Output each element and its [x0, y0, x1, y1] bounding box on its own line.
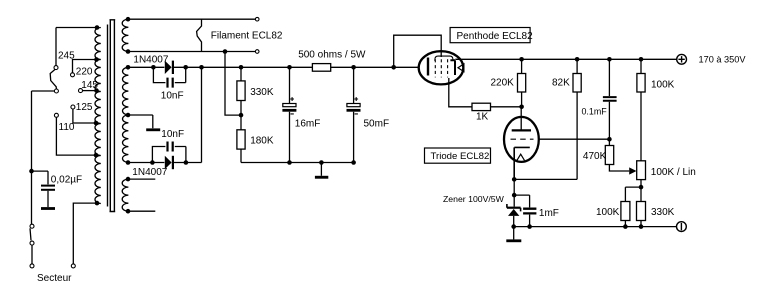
pentode cathode bar	[427, 58, 429, 76]
node 0.1mF top	[607, 57, 612, 62]
triode cathode hook	[514, 147, 530, 179]
svg-text:220K: 220K	[491, 78, 515, 89]
diode D2	[165, 156, 173, 169]
svg-text:500 ohms / 5W: 500 ohms / 5W	[298, 49, 366, 60]
node rectifier junction	[199, 65, 204, 70]
chassis bar center tap	[146, 128, 160, 131]
node spare winding bottom	[126, 209, 131, 214]
wire triode anode	[520, 107, 522, 130]
node HT winding bottom	[126, 160, 131, 165]
selector squiggle	[50, 69, 56, 89]
svg-text:100K / Lin: 100K / Lin	[651, 167, 696, 178]
resistor 220K	[518, 59, 526, 107]
resistor 82K	[573, 59, 581, 179]
node 220K top	[519, 57, 524, 62]
wire to capacitor 0,02uF	[32, 171, 49, 184]
resistor 470K	[605, 139, 629, 171]
potentiometer 100K/Lin	[637, 161, 646, 187]
node 50mF top	[351, 65, 356, 70]
tap 220 circle	[71, 73, 75, 77]
svg-text:10nF: 10nF	[161, 90, 184, 101]
node 330K bottom rail	[639, 224, 644, 229]
wire HT top to diode D1	[128, 66, 164, 68]
resistor 330K (divider)	[237, 67, 245, 115]
tap 110 circle	[54, 113, 58, 117]
terminal output plus	[677, 54, 687, 64]
wire selector to left rail	[32, 91, 55, 224]
svg-text:180K: 180K	[250, 136, 274, 147]
transformer primary winding	[95, 28, 101, 204]
pentode anode	[450, 60, 455, 75]
svg-text:50mF: 50mF	[364, 118, 390, 129]
svg-text:Penthode ECL82: Penthode ECL82	[457, 31, 534, 42]
node HT winding center tap	[126, 113, 131, 118]
node 330K top	[239, 65, 244, 70]
wire HT bottom to diode D2	[128, 162, 164, 164]
selector contact B	[54, 89, 58, 93]
svg-text:110: 110	[59, 122, 75, 133]
node D2 loop right	[184, 160, 189, 165]
svg-text:Triode ECL82: Triode ECL82	[431, 151, 490, 162]
resistor 330K (bottom)	[637, 202, 646, 227]
wire 1K to 220K node	[491, 106, 522, 108]
svg-text:220: 220	[76, 67, 93, 78]
node tap 110	[94, 153, 99, 158]
terminal filament bottom	[255, 50, 259, 54]
node zener bottom	[511, 224, 516, 229]
node 16mF bottom	[287, 160, 292, 165]
node divider mid	[239, 113, 244, 118]
node 1mF bottom	[527, 224, 532, 229]
svg-text:82K: 82K	[552, 78, 570, 89]
wire triode grid	[539, 138, 610, 140]
selector contact A	[54, 66, 58, 70]
transformer filament winding	[122, 19, 128, 51]
triode grid dashes	[511, 138, 534, 140]
chassis bar under zener	[506, 227, 521, 243]
resistor 180K	[237, 115, 245, 162]
resistor 1K	[472, 103, 491, 110]
node spare winding top	[126, 177, 131, 182]
node tap 125	[94, 121, 99, 126]
node cathode/82K	[512, 177, 517, 182]
svg-text:Filament ECL82: Filament ECL82	[211, 31, 283, 42]
wire HT rail	[174, 66, 419, 68]
node tap 145	[94, 88, 99, 93]
wire output rail	[455, 58, 676, 60]
node filament bottom	[126, 49, 131, 54]
svg-text:100K: 100K	[596, 207, 620, 218]
node D1 loop right	[183, 65, 188, 70]
transformer spare winding	[122, 179, 128, 211]
diode D1	[165, 61, 173, 74]
node 82K top	[575, 57, 580, 62]
zener diode	[507, 179, 521, 226]
svg-text:470K: 470K	[583, 151, 607, 162]
node 100K top	[639, 57, 644, 62]
chassis bar under 0,02uF	[41, 207, 55, 210]
node 16mF top	[287, 65, 292, 70]
node pot bottom	[639, 185, 644, 190]
node 100K bottom rail	[623, 224, 628, 229]
wire switch to terminal	[31, 245, 33, 264]
svg-text:0.1mF: 0.1mF	[582, 107, 608, 117]
svg-text:0,02µF: 0,02µF	[51, 175, 82, 186]
resistor 100K (top right)	[637, 59, 645, 161]
svg-text:16mF: 16mF	[295, 118, 321, 129]
capacitor 0,02uF	[41, 185, 55, 191]
node D2 loop left	[150, 160, 155, 165]
node grid/0.1mF/470K	[607, 137, 612, 142]
switch contact top	[30, 224, 34, 228]
terminal mains left	[30, 264, 34, 268]
wire spare top stub	[128, 178, 155, 180]
svg-text:1K: 1K	[476, 111, 489, 122]
svg-text:Secteur: Secteur	[37, 273, 72, 284]
resistor 100K (bottom)	[621, 202, 630, 227]
svg-text:330K: 330K	[651, 207, 675, 218]
terminal output minus	[677, 222, 687, 232]
capacitor 0.1mF	[603, 59, 617, 139]
box Penthode ECL82	[450, 28, 533, 43]
node 50mF bottom	[351, 160, 356, 165]
wire D2 output riser	[174, 67, 202, 162]
wire capacitor bottom	[47, 191, 49, 207]
tap 145 circle	[79, 89, 83, 93]
capacitor 50mF	[347, 67, 361, 162]
switch blade	[30, 228, 31, 240]
box Triode ECL82	[425, 148, 491, 163]
svg-text:330K: 330K	[250, 87, 274, 98]
wire filter ground rail	[241, 162, 354, 164]
svg-text:10nF: 10nF	[161, 129, 184, 140]
svg-text:1N4007: 1N4007	[133, 54, 168, 65]
triode heater caret	[517, 154, 525, 160]
wire filament bottom	[128, 51, 255, 53]
wire primary top (245 tap to winding top)	[56, 28, 97, 66]
switch contact bottom	[30, 241, 34, 245]
tube triode U2 envelope	[504, 117, 539, 162]
svg-text:1mF: 1mF	[539, 208, 559, 219]
node D1 loop left	[151, 65, 156, 70]
node 220K bottom	[519, 105, 524, 110]
filament squiggle	[197, 19, 202, 51]
node ground stub	[319, 160, 324, 165]
tap 125 circle	[71, 105, 75, 109]
svg-text:100K: 100K	[651, 79, 675, 90]
capacitor 1mF	[514, 195, 536, 227]
wire tap 110	[56, 117, 96, 155]
capacitor 10nF (across D1)	[153, 67, 185, 87]
transformer core	[108, 20, 116, 212]
node winding top	[95, 25, 100, 30]
wire spare bottom stub	[128, 210, 155, 212]
pentode anode chevron	[458, 64, 464, 72]
svg-text:125: 125	[76, 102, 93, 113]
node cathode/zener	[512, 193, 517, 198]
capacitor 16mF	[282, 67, 296, 162]
terminal mains right	[71, 264, 75, 268]
wire bottom rail	[514, 226, 677, 228]
wire tap 220	[73, 60, 97, 73]
node mains cap junction	[29, 169, 34, 174]
terminal filament top	[255, 17, 259, 21]
node HT winding top	[126, 65, 131, 70]
potentiometer wiper arrow	[629, 167, 636, 174]
wire filament top	[128, 18, 255, 20]
svg-text:Zener 100V/5W: Zener 100V/5W	[443, 194, 505, 204]
triode anode bar	[512, 129, 531, 131]
capacitor 10nF (across D2)	[152, 142, 186, 163]
resistor 500 ohms	[312, 64, 330, 72]
wire pot bottom branch	[625, 187, 641, 201]
transformer HT winding	[123, 67, 129, 162]
wire screen grid g2	[394, 35, 442, 67]
node g2 branch	[391, 65, 396, 70]
ground (filter)	[315, 163, 328, 179]
wire mains right to primary bottom	[73, 203, 97, 264]
wire cathode to 82K return	[514, 178, 577, 180]
wire center tap	[128, 115, 152, 128]
node heater reference	[223, 49, 228, 54]
node filament top	[126, 17, 131, 22]
svg-text:170 à 350V: 170 à 350V	[699, 55, 747, 65]
wire tap 125	[73, 109, 96, 123]
wire heater reference to divider	[225, 52, 241, 116]
pentode grid dashes	[435, 59, 447, 77]
tube pentode U1 envelope	[419, 51, 464, 84]
svg-text:1N4007: 1N4007	[132, 167, 167, 178]
node primary bottom	[95, 201, 100, 206]
wire tap 145	[83, 90, 97, 92]
node tap 220	[94, 57, 99, 62]
wire pentode g1 to 1K	[449, 78, 472, 107]
pentode grid cage	[435, 56, 453, 61]
